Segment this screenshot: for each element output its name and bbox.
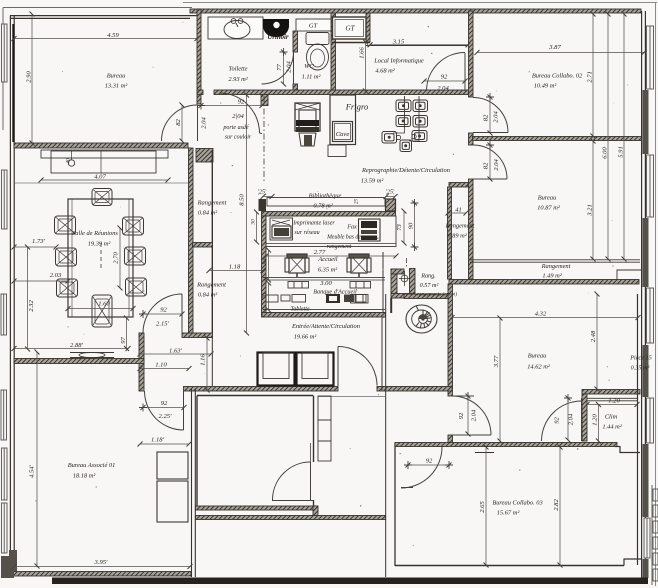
door Local Informatique: swing arc xyxy=(427,53,466,92)
washbasin faucet xyxy=(231,19,236,24)
wall: stair corridor top y294 xyxy=(404,294,451,299)
dim 70 line xyxy=(268,283,270,310)
svg-text:19.66 m²: 19.66 m² xyxy=(294,334,317,341)
GT box 2 xyxy=(333,17,367,39)
wall: top outer right section xyxy=(190,9,641,13)
svg-text:1.73': 1.73' xyxy=(32,238,46,245)
svg-text:5.91: 5.91 xyxy=(618,146,625,158)
wall: left outer dark segment beside Bureau xyxy=(12,24,14,142)
dash-dot line toilette corridor xyxy=(263,96,265,182)
door Bureau 10.87: swing arc xyxy=(473,145,507,179)
dim 97 line xyxy=(126,318,128,349)
svg-text:2.04: 2.04 xyxy=(493,159,500,171)
svg-text:41: 41 xyxy=(455,207,462,214)
scan frame top line xyxy=(183,2,657,4)
tablette shelf items xyxy=(266,295,366,303)
dim 2.32 line xyxy=(27,247,29,349)
wall: duct right line below closet xyxy=(211,337,213,386)
wall: Bureau bottom xyxy=(14,143,188,148)
svg-text:Pièce 15: Pièce 15 xyxy=(629,355,651,362)
door bottom-middle room: swing arc xyxy=(273,462,311,500)
wall: rang closet C-shape xyxy=(391,269,415,299)
dim 2.90 line xyxy=(31,14,33,143)
urinal (black) xyxy=(263,19,289,37)
wall: meeting room bottom y333 xyxy=(139,333,213,338)
dim 1.18 line corridor xyxy=(209,270,263,272)
wall: collabo03 bottom y563 xyxy=(395,565,624,567)
wall: sanitary zone bottom y90 xyxy=(197,90,472,95)
dim 6.00 line xyxy=(607,14,609,259)
svg-text:3.77: 3.77 xyxy=(493,355,500,368)
waiting armchair 1 xyxy=(258,353,295,386)
window left 3 xyxy=(1,294,7,335)
spiral staircase xyxy=(406,305,437,333)
wall: stub below closet xyxy=(390,298,392,313)
wall: GT boxes bottom / local informatique top xyxy=(332,42,370,44)
svg-text:4.68 m²: 4.68 m² xyxy=(375,68,394,75)
wall: accueil top y211 xyxy=(262,212,396,217)
window left 1 xyxy=(2,24,8,82)
svg-text:Bureau Associé 01: Bureau Associé 01 xyxy=(68,462,116,469)
door Bureau Collabo02: leaf xyxy=(473,132,508,134)
svg-text:82: 82 xyxy=(175,119,182,126)
wall: bureau14.62 left x448 xyxy=(448,284,453,446)
dim 3.77 line xyxy=(499,318,501,441)
dim 2.48 line xyxy=(596,294,598,389)
WC bowl xyxy=(307,44,329,70)
svg-text:rangements (envoi): rangements (envoi) xyxy=(417,291,457,298)
dim 92 line toilette door xyxy=(283,52,285,84)
svg-text:1.49 m²: 1.49 m² xyxy=(542,273,561,280)
svg-text:1.63': 1.63' xyxy=(169,348,183,355)
svg-text:90: 90 xyxy=(408,222,415,229)
scan speckles xyxy=(220,102,221,103)
svg-text:3.87: 3.87 xyxy=(548,44,561,51)
margin legend line xyxy=(651,485,653,585)
svg-text:3.00: 3.00 xyxy=(319,280,332,287)
window left 6 xyxy=(2,503,8,553)
svg-text:18.18 m²: 18.18 m² xyxy=(73,473,96,480)
dim 90 left line xyxy=(256,212,258,242)
door Entree south: swing arc xyxy=(338,347,377,386)
desks bureau accueil01 xyxy=(157,452,188,479)
wall: corridor right line x212 xyxy=(211,150,213,333)
dim 2.70 line xyxy=(119,228,121,288)
svg-text:92: 92 xyxy=(160,307,167,314)
svg-text:92: 92 xyxy=(426,458,433,465)
dim 92 line local info door xyxy=(424,80,465,82)
svg-text:sur réseau: sur réseau xyxy=(294,230,319,236)
svg-text:25: 25 xyxy=(354,199,360,205)
svg-text:1.16: 1.16 xyxy=(200,354,207,366)
dim 4.54 line xyxy=(36,352,38,566)
door Bureau Accueil01: leaf xyxy=(183,391,185,430)
dim 2.71 line xyxy=(592,14,594,136)
svg-text:WC: WC xyxy=(304,63,314,70)
dim 92 line bureau TL door xyxy=(181,105,183,141)
dim 2.88 line xyxy=(14,348,128,350)
svg-text:19.39 m²: 19.39 m² xyxy=(88,241,111,248)
wall: top outer left section (double line) xyxy=(10,16,197,19)
dim 82 line collabo02 door xyxy=(489,97,491,133)
dim 3.87 line xyxy=(477,52,644,54)
svg-text:3.15: 3.15 xyxy=(392,39,405,46)
wall: collabo03 bottom-right step xyxy=(624,559,641,566)
svg-text:4.07: 4.07 xyxy=(94,174,106,181)
svg-text:GT: GT xyxy=(309,23,319,30)
wall: rangement1.49 right end step xyxy=(617,270,641,280)
svg-text:2.77: 2.77 xyxy=(314,249,326,256)
svg-text:2.03: 2.03 xyxy=(50,272,62,279)
dash-dot line rang closet xyxy=(406,258,408,268)
door Bureau Collabo02: swing arc xyxy=(473,98,508,133)
wall: left outer (double line) xyxy=(10,16,14,567)
door Bureau Accueil01: swing arc xyxy=(145,391,184,430)
svg-text:Clim: Clim xyxy=(605,414,618,421)
dim 3.95 line xyxy=(14,566,190,568)
svg-text:2.25': 2.25' xyxy=(159,413,173,420)
wall: bottom-middle room south wall y506 xyxy=(196,506,318,510)
door bottom-middle room: leaf xyxy=(310,462,312,500)
svg-text:2.71: 2.71 xyxy=(587,71,594,83)
annex box below frigo xyxy=(328,145,346,157)
svg-text:2.04: 2.04 xyxy=(286,61,293,73)
svg-text:1.44 m²: 1.44 m² xyxy=(602,424,621,431)
dim (25) ticks left xyxy=(263,196,272,198)
svg-text:2.93 m²: 2.93 m² xyxy=(228,76,247,83)
meeting room radiator xyxy=(70,352,114,357)
dim 4.59 line xyxy=(14,38,197,40)
wall: meeting room zone boundary thin line y183 xyxy=(15,182,188,184)
svg-text:1.18: 1.18 xyxy=(229,264,241,271)
svg-text:13.59 m²: 13.59 m² xyxy=(361,178,384,185)
window left 5 xyxy=(2,448,8,500)
svg-text:Banque d'Accueil: Banque d'Accueil xyxy=(313,289,357,296)
dim 92 line collabo03 door xyxy=(408,464,449,466)
dim 92 line clim door xyxy=(567,398,569,440)
waiting armchair 2 xyxy=(297,353,334,386)
accueil office chair 2 xyxy=(347,254,371,277)
svg-text:¦25¦: ¦25¦ xyxy=(257,190,267,196)
dim 4.07 line xyxy=(41,179,168,181)
wall: lower band y515 xyxy=(196,516,386,520)
banque items row xyxy=(292,295,306,303)
svg-text:1.66: 1.66 xyxy=(359,47,366,59)
wall: left outer dark segment bottom corner xyxy=(9,550,17,576)
scan frame left line xyxy=(2,8,4,131)
wall: accueil left x261.5 xyxy=(262,216,267,317)
svg-text:1.20: 1.20 xyxy=(608,398,620,405)
GT box 1 xyxy=(296,19,331,31)
svg-text:Bureau: Bureau xyxy=(538,195,557,202)
svg-text:Toilette: Toilette xyxy=(229,66,248,73)
svg-text:2.48: 2.48 xyxy=(590,330,597,342)
door Bureau Collabo03: leaf stub xyxy=(401,487,413,489)
svg-text:2|04: 2|04 xyxy=(232,113,244,120)
svg-text:Rang.: Rang. xyxy=(420,273,436,280)
door corridor to Bureau14.62: swing arc xyxy=(452,396,491,435)
door Bureau top-left: swing arc xyxy=(162,105,198,141)
imprimante table xyxy=(270,218,293,240)
door corridor to Bureau14.62: top jamb line xyxy=(448,395,474,397)
dim 3.15 line xyxy=(370,44,468,46)
svg-text:2.04: 2.04 xyxy=(437,85,449,92)
svg-text:8.50: 8.50 xyxy=(239,194,246,206)
dim 2.82 line xyxy=(559,447,561,565)
wall: Collabo02 / Bureau10.87 divider y136 xyxy=(473,137,642,141)
svg-text:40: 40 xyxy=(65,158,72,164)
repro chairs (nested squares) xyxy=(382,100,428,152)
svg-text:2.70: 2.70 xyxy=(113,252,120,264)
wall: right inner line x637.5 xyxy=(637,294,639,565)
svg-text:77: 77 xyxy=(276,64,283,71)
wall: collabo03 inner left x395 xyxy=(394,443,396,566)
svg-text:73: 73 xyxy=(396,224,403,231)
window right 2 xyxy=(647,155,654,217)
svg-text:Reprographie/Détente/Circulati: Reprographie/Détente/Circulation xyxy=(361,167,450,174)
wall: bibliotheque pier right xyxy=(386,199,396,211)
svg-text:1.10: 1.10 xyxy=(155,362,167,369)
accueil office chair 1 xyxy=(285,254,309,277)
conference table xyxy=(68,199,133,317)
svg-text:1.20: 1.20 xyxy=(592,414,599,426)
svg-text:4.54': 4.54' xyxy=(29,464,36,478)
wall: right outer (double line) xyxy=(642,11,646,578)
dim 1.18 line bureau01 xyxy=(140,443,189,445)
svg-text:82: 82 xyxy=(483,114,490,121)
window right 5 xyxy=(644,518,650,558)
wall: corridor face line y396 xyxy=(318,396,385,398)
door Clim: swing arc xyxy=(542,401,582,441)
svg-text:Imprimante laser: Imprimante laser xyxy=(292,221,335,227)
svg-text:sur couloir: sur couloir xyxy=(225,135,252,141)
dim 82 line bureau1087 door xyxy=(489,145,491,179)
wall: rangement1.49 top double line y260 xyxy=(470,260,640,262)
svg-text:Bibliothèque: Bibliothèque xyxy=(309,193,342,200)
svg-text:2.65: 2.65 xyxy=(479,501,486,513)
wall: step x313 y506-517 xyxy=(313,506,318,517)
svg-text:3.95': 3.95' xyxy=(94,559,109,566)
dim 8.50 line xyxy=(246,95,248,333)
wall: hatched pier below sanitary wall at repro corner xyxy=(261,95,268,106)
svg-text:2.90: 2.90 xyxy=(26,71,33,83)
scan frame right line xyxy=(655,3,657,586)
dim 1.60 line xyxy=(68,308,133,310)
washbasin counter xyxy=(208,17,263,39)
wall: bureau accueil01 bottom y572 xyxy=(12,572,191,577)
svg-text:Urinoir: Urinoir xyxy=(267,34,289,41)
door Toilette: leaf xyxy=(293,52,295,84)
svg-text:0.84 m²: 0.84 m² xyxy=(198,210,217,217)
radiator bottom-middle room xyxy=(318,396,331,461)
wall: rangement0.89 left x447.5 xyxy=(448,187,452,279)
svg-text:0.84 m²: 0.84 m² xyxy=(198,292,217,299)
svg-text:1.18': 1.18' xyxy=(151,437,165,444)
door corridor (porte condamnee): swing arc xyxy=(220,93,260,133)
svg-text:rangement: rangement xyxy=(327,244,352,250)
door Clim: leaf xyxy=(581,398,583,441)
svg-text:Cave: Cave xyxy=(336,131,350,138)
dim 1.10 line xyxy=(140,368,189,370)
svg-text:10.49 m²: 10.49 m² xyxy=(534,83,557,90)
margin legend boxes xyxy=(653,489,658,501)
svg-text:Rangement: Rangement xyxy=(197,200,227,207)
door corridor to Bureau14.62: bottom leaf xyxy=(452,434,491,436)
svg-text:97: 97 xyxy=(120,337,127,344)
svg-text:4.59: 4.59 xyxy=(107,32,119,39)
svg-text:4.32: 4.32 xyxy=(535,311,547,318)
dim 41 line xyxy=(448,212,466,214)
wall: Toilette/WC divider x293 xyxy=(293,31,298,92)
dim 1.63 line xyxy=(140,353,211,355)
svg-text:2.88': 2.88' xyxy=(70,342,84,349)
svg-text:porte asdé: porte asdé xyxy=(222,125,249,131)
wall: collabo03 top y442 xyxy=(395,443,617,447)
svg-text:Frigro: Frigro xyxy=(345,102,369,112)
svg-text:Salle de Réunions: Salle de Réunions xyxy=(72,230,118,237)
wall: pier hatched at corridor top xyxy=(196,149,213,163)
dim 1.20 line clim horizontal xyxy=(587,404,637,406)
svg-text:13.31 m²: 13.31 m² xyxy=(105,83,128,90)
dim 92 line accueil01 door xyxy=(143,407,184,409)
frigo closet xyxy=(330,95,356,145)
wall: corridor divider y242 xyxy=(193,243,213,248)
dim 2.65 line xyxy=(485,447,487,565)
wall: small recess line right of collabo03 door xyxy=(475,452,494,454)
svg-text:84: 84 xyxy=(262,259,269,265)
wall: rangement0.89 cap y182 xyxy=(449,183,468,188)
dim 2.03 line xyxy=(14,280,68,282)
WC cistern xyxy=(306,33,329,45)
repro table edges xyxy=(404,96,406,128)
cave box xyxy=(333,122,353,142)
banque accueil top double line xyxy=(263,277,385,279)
window left 2 xyxy=(2,170,8,229)
meuble bas counter xyxy=(266,216,396,247)
svg-text:Rangement: Rangement xyxy=(196,282,226,289)
svg-text:0.57 m²: 0.57 m² xyxy=(420,282,439,289)
scan frame inner top line xyxy=(3,7,192,9)
wall: GT2 right x366 xyxy=(366,13,370,42)
wall: right outer dark fill segments between windows xyxy=(643,90,649,578)
dim 84 line xyxy=(268,250,270,280)
svg-text:92: 92 xyxy=(161,400,168,407)
svg-text:30: 30 xyxy=(251,219,257,226)
svg-text:3.21: 3.21 xyxy=(587,204,594,217)
dim 1.66 line xyxy=(365,42,367,91)
svg-text:1.60: 1.60 xyxy=(98,301,110,308)
door bottom-middle room: jamb extension xyxy=(310,443,312,462)
svg-text:0.35 m²: 0.35 m² xyxy=(631,365,650,372)
dim 5.91 line xyxy=(623,14,625,259)
svg-text:92: 92 xyxy=(441,74,448,81)
dim 90 line xyxy=(414,203,416,247)
dim 92 line corridor-b1462 door xyxy=(467,396,469,434)
wall: south band y279 (top of bureau14.62) xyxy=(449,280,639,285)
svg-text:6.00: 6.00 xyxy=(602,147,609,159)
svg-text:2.04: 2.04 xyxy=(568,413,575,425)
wall: bottom-middle room right x313 xyxy=(313,396,315,518)
credenza against bureau wall xyxy=(41,150,168,173)
svg-text:10.87 m²: 10.87 m² xyxy=(537,205,560,212)
fax machine xyxy=(359,219,381,241)
svg-text:Entrée/Attente/Circulation: Entrée/Attente/Circulation xyxy=(291,323,360,330)
svg-text:Local Informatique: Local Informatique xyxy=(373,58,424,65)
svg-text:0.78 m²: 0.78 m² xyxy=(313,203,332,210)
svg-text:15.67 m²: 15.67 m² xyxy=(497,510,520,517)
svg-text:2.04: 2.04 xyxy=(201,117,208,129)
svg-text:Meuble bas de: Meuble bas de xyxy=(326,235,361,241)
svg-text:Accueil: Accueil xyxy=(317,256,337,263)
wall: entree bottom y386 xyxy=(184,387,453,392)
window left 4 xyxy=(1,390,7,440)
svg-text:92: 92 xyxy=(238,99,245,106)
wall: WC right x331 xyxy=(331,13,336,92)
wall: bibliotheque pier left xyxy=(259,199,267,211)
svg-text:GT: GT xyxy=(346,25,356,33)
svg-text:70: 70 xyxy=(263,293,269,299)
window right 1 xyxy=(647,26,654,89)
svg-text:6.35 m²: 6.35 m² xyxy=(318,267,337,274)
svg-text:2.82: 2.82 xyxy=(553,499,560,511)
washbasin bowl xyxy=(224,21,250,39)
wall: corridor left x188.5 (hatched) xyxy=(189,148,194,334)
svg-text:Bureau Collabo. 03: Bureau Collabo. 03 xyxy=(492,500,542,507)
wall: clim top y389 xyxy=(582,390,640,395)
door Toilette: swing arc xyxy=(262,52,294,84)
svg-text:Rangement: Rangement xyxy=(541,263,571,270)
door corridor: leaf stub xyxy=(260,132,263,135)
wall: entree right boundary lines xyxy=(382,252,386,577)
door bottom-middle room: sill line xyxy=(272,500,313,502)
dim 73 line xyxy=(403,211,405,243)
svg-text:Bureau Collabo. 02: Bureau Collabo. 02 xyxy=(532,73,583,80)
svg-text:92: 92 xyxy=(458,412,465,419)
dim 92 line reunion door xyxy=(143,313,182,315)
dim 92 line porte couloir xyxy=(201,105,262,107)
dim 1.20 line clim vertical xyxy=(598,405,600,442)
bibliotheque shelf xyxy=(267,198,385,207)
svg-text:1.11 m²: 1.11 m² xyxy=(302,74,321,81)
keyboard tray 1 xyxy=(288,282,309,289)
dim 1.73 line xyxy=(14,246,56,248)
svg-text:2.15': 2.15' xyxy=(156,321,170,328)
svg-text:0.89 m²: 0.89 m² xyxy=(447,233,466,240)
door Bureau top-left: leaf xyxy=(197,105,199,141)
door Bureau Collabo03: swing arc xyxy=(401,447,442,488)
dim (25) ticks right xyxy=(386,196,395,198)
wall: clim left x582 xyxy=(582,394,587,441)
svg-text:Bureau: Bureau xyxy=(528,353,547,360)
window right 3 xyxy=(647,288,654,343)
banque front double line + dark band xyxy=(263,308,385,310)
svg-text:¦25¦: ¦25¦ xyxy=(385,190,395,196)
wall: meeting room bottom-left y358 xyxy=(14,359,144,364)
dim 1.16 line xyxy=(206,338,208,390)
svg-text:Tablette: Tablette xyxy=(290,307,309,313)
wall: closet left x139 xyxy=(139,333,144,391)
dim 4.32 line xyxy=(452,317,638,319)
dim 3.21 line xyxy=(592,141,594,259)
svg-text:2.04: 2.04 xyxy=(493,111,500,123)
svg-text:2.04: 2.04 xyxy=(471,409,478,421)
wall: bottom-middle room outline xyxy=(197,396,313,507)
wall: Bureau/Toilette divider x197 upper xyxy=(197,9,201,104)
wall: step at x615 of collabo03 top xyxy=(615,447,640,453)
wall: long divider x468.5-472.5 (repro vs right rooms) xyxy=(469,11,474,279)
svg-text:Fax: Fax xyxy=(346,224,357,231)
svg-text:14.62 m²: 14.62 m² xyxy=(527,364,550,371)
